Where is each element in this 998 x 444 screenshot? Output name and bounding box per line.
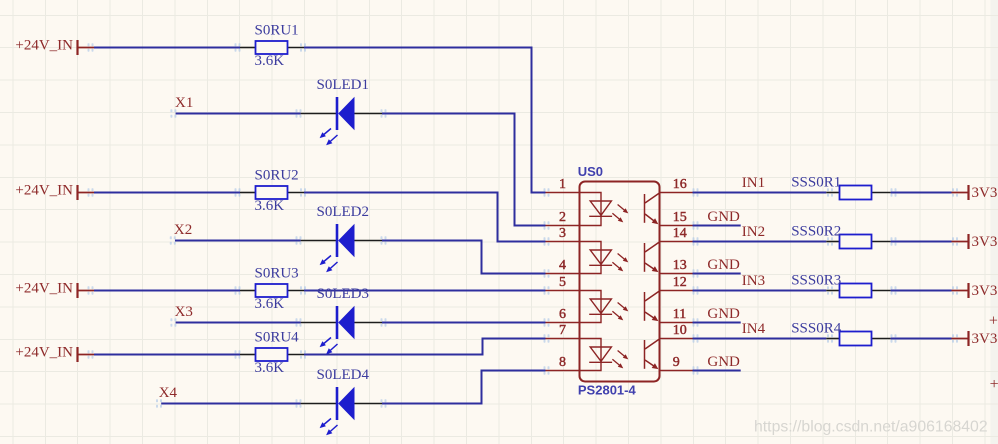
junction mark at port 4 xyxy=(88,350,94,358)
pin 4 stub xyxy=(546,273,581,275)
svg-text:https://blog.csdn.net/a9061684: https://blog.csdn.net/a906168402 xyxy=(754,419,988,436)
wire +24V_IN row 1 to resistor S0RU1 xyxy=(94,47,240,49)
wire X3 to LED S0LED3 xyxy=(176,322,301,324)
junction mark at pin 4 xyxy=(544,269,550,277)
junction marks right row 4 xyxy=(827,334,958,342)
power port +24V_IN (row 3) xyxy=(15,281,94,298)
wire pin to GND (row 3) xyxy=(693,322,741,324)
svg-text:3: 3 xyxy=(559,226,566,241)
LED S0LED3 emission arrows xyxy=(320,338,338,355)
opto unit 4: phototransistor Q xyxy=(645,339,660,369)
junction mark at net label X3 xyxy=(170,318,176,326)
junction marks at LED S0LED1 pins xyxy=(296,109,387,117)
svg-text:PS2801-4: PS2801-4 xyxy=(578,383,637,398)
svg-text:SSS0R4: SSS0R4 xyxy=(791,321,842,337)
pin 10 stub xyxy=(659,338,693,340)
svg-text:IN3: IN3 xyxy=(742,273,765,289)
opto unit 3: internal LED xyxy=(580,291,613,323)
wire LED S0LED1 to chip pin 2 (with bend) xyxy=(382,114,546,226)
power port +24V_IN (row 1) xyxy=(15,38,94,55)
resistor S0RU2 (3.6K) xyxy=(240,186,304,199)
svg-text:S0RU1: S0RU1 xyxy=(255,23,299,39)
svg-text:12: 12 xyxy=(673,275,687,290)
svg-text:3V3: 3V3 xyxy=(972,185,998,201)
svg-text:6: 6 xyxy=(559,307,566,322)
resistor S0RU4 (3.6K) xyxy=(240,348,304,361)
svg-text:US0: US0 xyxy=(578,164,603,179)
svg-text:7: 7 xyxy=(559,323,566,338)
svg-text:9: 9 xyxy=(673,355,680,370)
junction marks at resistor S0RU4 pins xyxy=(235,350,307,358)
wire X2 to LED S0LED2 xyxy=(175,240,301,242)
pin 11 stub xyxy=(659,322,693,324)
pin 13 stub xyxy=(659,273,693,275)
svg-text:+: + xyxy=(990,376,998,393)
junction mark at pin 12 xyxy=(693,286,699,294)
svg-text:X2: X2 xyxy=(174,222,192,238)
pin 14 stub xyxy=(659,241,693,243)
wire resistor S0RU4 to chip pin 7 (with bend) xyxy=(304,339,546,355)
pin 7 stub xyxy=(546,338,581,340)
wire pin to net IN3 xyxy=(693,290,827,292)
pin 5 stub xyxy=(546,290,581,292)
wire +24V_IN row 4 to resistor S0RU4 xyxy=(94,354,240,356)
svg-text:S0RU3: S0RU3 xyxy=(255,266,299,282)
junction mark at pin 8 xyxy=(544,366,550,374)
svg-text:+: + xyxy=(989,313,998,330)
svg-text:3V3: 3V3 xyxy=(972,283,998,299)
svg-text:+24V_IN: +24V_IN xyxy=(15,183,73,199)
svg-text:+24V_IN: +24V_IN xyxy=(15,281,73,297)
opto unit 3: light arrows xyxy=(612,303,628,321)
power port +24V_IN (row 4) xyxy=(15,345,94,362)
junction marks right row 1 xyxy=(827,188,958,196)
svg-text:S0LED3: S0LED3 xyxy=(317,286,370,302)
svg-text:3V3: 3V3 xyxy=(972,331,998,347)
svg-text:+24V_IN: +24V_IN xyxy=(15,345,73,361)
svg-text:5: 5 xyxy=(559,275,566,290)
LED S0LED1 xyxy=(301,97,382,131)
svg-text:IN2: IN2 xyxy=(742,224,765,240)
junction mark at pin 15 xyxy=(693,221,699,229)
svg-text:3V3: 3V3 xyxy=(972,234,998,250)
power port 3V3 (row 3) xyxy=(952,283,998,299)
screenshot right edge shading xyxy=(991,0,998,444)
junction marks at resistor S0RU2 pins xyxy=(235,188,307,196)
opto unit 1: light arrows xyxy=(612,205,628,223)
pin 12 stub xyxy=(659,290,693,292)
opto unit 4: light arrows xyxy=(612,351,628,369)
wire SSS0R4 to 3V3 port xyxy=(891,338,952,340)
opto unit 1: internal LED xyxy=(580,193,613,226)
resistor SSS0R3 xyxy=(826,284,890,298)
svg-text:X1: X1 xyxy=(175,95,193,111)
opto unit 3: phototransistor Q xyxy=(645,291,660,321)
power port 3V3 (row 2) xyxy=(952,234,998,250)
junction mark at port 1 xyxy=(88,43,94,51)
wire LED S0LED4 to chip pin 8 (with bend) xyxy=(382,371,546,404)
opto unit 4: internal LED xyxy=(580,339,613,371)
resistor SSS0R2 xyxy=(826,235,890,249)
wire pin to net IN2 xyxy=(693,241,827,243)
svg-text:+24V_IN: +24V_IN xyxy=(15,38,73,54)
opto unit 2: internal LED xyxy=(580,242,613,274)
pin 15 stub xyxy=(659,225,693,227)
svg-text:GND: GND xyxy=(707,354,740,370)
svg-text:IN1: IN1 xyxy=(742,175,765,191)
svg-text:S0LED4: S0LED4 xyxy=(317,367,370,383)
power port +24V_IN (row 2) xyxy=(15,183,94,200)
resistor SSS0R1 xyxy=(826,186,890,200)
LED S0LED4 emission arrows xyxy=(320,419,338,436)
wire pin to net IN1 xyxy=(693,192,827,194)
junction mark at port 3 xyxy=(88,286,94,294)
junction mark at pin 13 xyxy=(693,269,699,277)
wire resistor S0RU1 to chip pin 1 (with bend) xyxy=(304,48,546,193)
svg-text:S0RU2: S0RU2 xyxy=(255,168,299,184)
svg-text:11: 11 xyxy=(673,307,686,322)
svg-text:1: 1 xyxy=(559,177,566,192)
wire SSS0R2 to 3V3 port xyxy=(891,241,952,243)
junction marks at LED S0LED3 pins xyxy=(296,318,387,326)
svg-text:10: 10 xyxy=(673,323,687,338)
pin 3 stub xyxy=(546,241,581,243)
LED S0LED2 emission arrows xyxy=(320,256,338,273)
junction mark at port 2 xyxy=(88,188,94,196)
op-amp/optocoupler IC US0 body (PS2801-4) xyxy=(580,182,660,382)
svg-text:X3: X3 xyxy=(175,304,193,320)
wire LED S0LED3 to chip pin 6 xyxy=(382,322,546,324)
svg-text:GND: GND xyxy=(707,257,740,273)
resistor S0RU3 (3.6K) xyxy=(240,284,304,297)
junction marks at LED S0LED4 pins xyxy=(296,399,387,407)
LED S0LED4 xyxy=(301,387,382,421)
wire resistor S0RU2 to chip pin 3 (with bend) xyxy=(304,193,546,242)
wire +24V_IN row 3 to resistor S0RU3 xyxy=(94,290,240,292)
svg-text:SSS0R3: SSS0R3 xyxy=(791,273,841,289)
svg-text:GND: GND xyxy=(707,306,740,322)
wire pin to net IN4 xyxy=(693,338,827,340)
wire pin to GND (row 4) xyxy=(693,370,741,372)
junction mark at net label X4 xyxy=(156,399,162,407)
junction marks right row 3 xyxy=(827,286,958,294)
pin 6 stub xyxy=(546,322,581,324)
pin 1 stub xyxy=(546,192,581,194)
svg-text:3.6K: 3.6K xyxy=(255,360,285,376)
svg-text:SSS0R2: SSS0R2 xyxy=(791,224,841,240)
junction mark at net label X1 xyxy=(170,109,176,117)
svg-text:IN4: IN4 xyxy=(742,321,766,337)
junction mark at pin 2 xyxy=(544,221,550,229)
junction marks right row 2 xyxy=(827,237,958,245)
svg-text:3.6K: 3.6K xyxy=(255,198,285,214)
power port 3V3 (row 1) xyxy=(952,185,998,201)
junction mark at pin 9 xyxy=(693,366,699,374)
svg-text:3.6K: 3.6K xyxy=(255,53,285,69)
wire pin to GND (row 1) xyxy=(693,225,741,227)
svg-text:3.6K: 3.6K xyxy=(255,296,285,312)
opto unit 2: light arrows xyxy=(612,254,628,272)
junction marks at resistor S0RU3 pins xyxy=(235,286,307,294)
LED S0LED3 xyxy=(301,306,382,340)
LED S0LED2 xyxy=(301,224,382,258)
wire pin to GND (row 2) xyxy=(693,273,741,275)
wire SSS0R1 to 3V3 port xyxy=(891,192,952,194)
junction mark at pin 7 xyxy=(544,334,550,342)
junction mark at pin 11 xyxy=(693,318,699,326)
svg-text:GND: GND xyxy=(707,209,740,225)
svg-text:14: 14 xyxy=(673,226,687,241)
pin 16 stub xyxy=(659,192,693,194)
pin 9 stub xyxy=(659,370,693,372)
svg-text:13: 13 xyxy=(673,258,687,273)
svg-text:4: 4 xyxy=(559,258,566,273)
svg-text:X4: X4 xyxy=(159,385,178,401)
svg-text:8: 8 xyxy=(559,355,566,370)
resistor SSS0R4 xyxy=(826,332,890,346)
wire resistor S0RU3 to chip pin 5 xyxy=(304,290,546,292)
wire X4 to LED S0LED4 xyxy=(161,403,300,405)
junction mark at pin 6 xyxy=(544,318,550,326)
power port 3V3 (row 4) xyxy=(952,331,998,347)
junction mark at pin 3 xyxy=(544,237,550,245)
junction mark at pin 14 xyxy=(693,237,699,245)
opto unit 2: phototransistor Q xyxy=(645,242,660,272)
wire SSS0R3 to 3V3 port xyxy=(891,290,952,292)
junction mark at net label X2 xyxy=(170,236,176,244)
junction mark at pin 5 xyxy=(544,286,550,294)
pin 8 stub xyxy=(546,370,581,372)
svg-text:SSS0R1: SSS0R1 xyxy=(791,175,841,191)
junction mark at pin 16 xyxy=(693,188,699,196)
svg-text:15: 15 xyxy=(673,210,687,225)
svg-text:S0LED2: S0LED2 xyxy=(317,204,370,220)
svg-text:2: 2 xyxy=(559,210,566,225)
junction mark at pin 1 xyxy=(544,188,550,196)
resistor S0RU1 (3.6K) xyxy=(240,41,304,54)
svg-text:16: 16 xyxy=(673,177,687,192)
LED S0LED1 emission arrows xyxy=(320,129,338,146)
wire +24V_IN row 2 to resistor S0RU2 xyxy=(94,192,240,194)
wire LED S0LED2 to chip pin 4 (with bend) xyxy=(382,241,546,274)
junction mark at pin 10 xyxy=(693,334,699,342)
pin 2 stub xyxy=(546,225,581,227)
junction marks at LED S0LED2 pins xyxy=(296,236,387,244)
svg-text:S0LED1: S0LED1 xyxy=(317,77,370,93)
wire X1 to LED S0LED1 xyxy=(176,113,301,115)
opto unit 1: phototransistor Q xyxy=(645,193,660,223)
svg-text:S0RU4: S0RU4 xyxy=(255,330,300,346)
junction marks at resistor S0RU1 pins xyxy=(235,43,307,51)
